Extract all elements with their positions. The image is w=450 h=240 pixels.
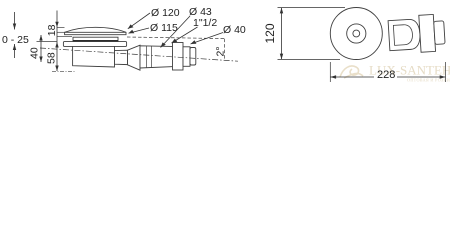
svg-text:Ø 115: Ø 115 [150, 22, 178, 34]
cap dome base line [65, 31, 126, 33]
svg-text:120: 120 [263, 23, 277, 43]
dimension 0-25 [13, 12, 16, 58]
reference line dome-base short [57, 31, 65, 33]
rim disc thick bottom edge [73, 40, 118, 42]
pipe end cylinder [183, 47, 190, 67]
rim disc under cap [73, 37, 118, 41]
dimension line 18/58 shared [55, 11, 58, 72]
svg-text:58: 58 [46, 52, 58, 64]
inner bullet [393, 24, 413, 45]
dashed horizontal reference right [127, 37, 225, 39]
watermark logo swirl [340, 66, 363, 78]
outlet tube [140, 46, 177, 68]
collar bullet [388, 19, 421, 51]
tube ring groove 1 [146, 46, 148, 68]
svg-text:Ø 120: Ø 120 [151, 7, 180, 19]
siphon body [73, 46, 115, 67]
reference line trap bottom (dash-dot) [52, 70, 76, 72]
svg-text:0 - 25: 0 - 25 [2, 34, 29, 46]
nut top view [419, 14, 436, 52]
svg-text:2°: 2° [215, 46, 227, 56]
middle circle [347, 24, 366, 43]
neck [115, 50, 128, 64]
svg-text:Ø 40: Ø 40 [223, 24, 246, 36]
reference line rim-bottom short [57, 36, 72, 38]
dimension 40 line [39, 35, 42, 62]
svg-text:40: 40 [29, 47, 41, 59]
dashed vertical at 2-deg dimension [224, 39, 226, 61]
tube ring groove 2 [151, 46, 153, 67]
inner circle [353, 30, 360, 37]
cap dome [65, 27, 126, 34]
reference line mid (between 40 and 58 lines) [37, 40, 58, 42]
collar horn [128, 45, 141, 70]
svg-text:228: 228 [377, 69, 395, 81]
svg-text:18: 18 [46, 24, 58, 36]
centerline pipe axis (dash-dot) [40, 48, 238, 61]
flange plate [63, 42, 126, 47]
coupling nut [173, 43, 184, 71]
reference line dome-top (dash-dot) [57, 26, 65, 28]
pipe end cap [190, 48, 196, 66]
outlet assembly top view [388, 14, 446, 54]
outer circle [330, 8, 382, 60]
svg-text:ОПТОВАЯ И РОЗНИЧНАЯ ПРОДАЖА: ОПТОВАЯ И РОЗНИЧНАЯ ПРОДАЖА [407, 78, 450, 83]
dimension 228 (right view) [330, 62, 445, 82]
dimension 120 (right view) [278, 8, 346, 60]
end cap top view [434, 21, 445, 45]
